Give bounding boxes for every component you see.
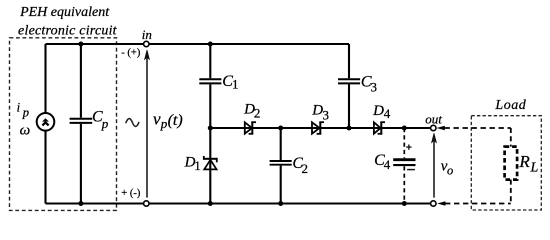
wire Cp branch [80,44,82,204]
wire dashed load right bottom [510,180,512,204]
diode D3 (Schottky, pointing right) [312,122,324,134]
svg-text:2: 2 [302,161,309,176]
wire middle rail [210,127,431,129]
diode D4 (Schottky, pointing right) [374,122,385,134]
svg-text:L: L [530,161,539,176]
wire dashed load right top [510,128,512,147]
wire bottom rail [46,202,432,204]
wire C3 branch [348,44,350,128]
svg-text:p: p [160,116,168,131]
label plus C4 [406,145,411,150]
wire top rail [46,43,350,45]
svg-text:in: in [142,27,152,42]
PEH equivalent electronic circuit title [18,5,118,38]
svg-text:3: 3 [323,107,330,122]
svg-text:R: R [518,152,530,171]
capacitor C3 [338,79,360,83]
junction C4 top [402,126,407,131]
arrowhead to out node bottom [437,201,445,206]
svg-text:PEH equivalent: PEH equivalent [19,5,110,20]
svg-text:4: 4 [384,106,391,121]
svg-text:4: 4 [384,157,391,172]
svg-text:p: p [22,105,29,119]
wire C4 dashed branch lower [403,166,405,203]
junction C1 bottom / middle rail [208,126,213,131]
resistor RL (dashed box) [505,147,517,180]
svg-text:1: 1 [194,158,201,173]
label tilde [126,119,139,127]
capacitor Cp [70,119,93,123]
wire C1 branch [209,44,211,128]
svg-text:out: out [425,111,442,126]
Load dashed box [471,116,541,210]
junction Cp top [78,42,83,47]
junction Cp bottom [78,201,83,206]
junction C2 top [278,126,283,131]
svg-text:2: 2 [254,106,261,121]
wire C4 dashed branch upper [403,128,405,158]
wire D1 branch [209,128,211,204]
node in bottom (open circle) [144,201,149,206]
wire dashed load top connection [445,127,511,129]
svg-text:o: o [447,163,453,177]
vo measurement arrow [432,133,437,197]
junction D1 bottom [208,201,213,206]
node out bottom (open circle) [431,201,436,206]
svg-text:+ (-): + (-) [121,188,141,199]
current source ip [37,113,55,131]
svg-text:- (+): - (+) [121,48,141,59]
diode D2 (Schottky, pointing right) [245,122,256,134]
junction C1 top [208,42,213,47]
svg-text:1: 1 [232,77,239,92]
svg-text:D: D [372,103,384,119]
svg-text:i: i [17,100,21,114]
node in (open circle) [144,41,149,46]
wire C2 branch [280,128,282,204]
svg-text:D: D [311,102,323,118]
capacitor C1 [199,79,221,83]
junction C2 bottom [278,201,283,206]
svg-text:3: 3 [371,80,378,95]
junction C4 bottom [402,201,407,206]
vp(t) measurement arrow [145,50,150,198]
PEH dashed box [10,38,117,211]
node out (open circle) [431,125,436,130]
capacitor C4 (polarized) [393,160,415,165]
junction C3 bottom / middle rail [347,126,352,131]
svg-text:p: p [101,116,109,131]
svg-text:electronic circuit: electronic circuit [18,23,118,38]
arrowhead to out node top [437,126,445,131]
label minus C4 [407,169,415,171]
svg-text:(t): (t) [168,112,183,129]
wire current source branch [44,44,46,204]
wire dashed load bottom connection [445,203,511,205]
diode D1 (Schottky, pointing up) [204,156,217,169]
svg-text:ω: ω [20,123,31,139]
capacitor C2 [270,161,292,165]
svg-text:Load: Load [494,98,526,113]
